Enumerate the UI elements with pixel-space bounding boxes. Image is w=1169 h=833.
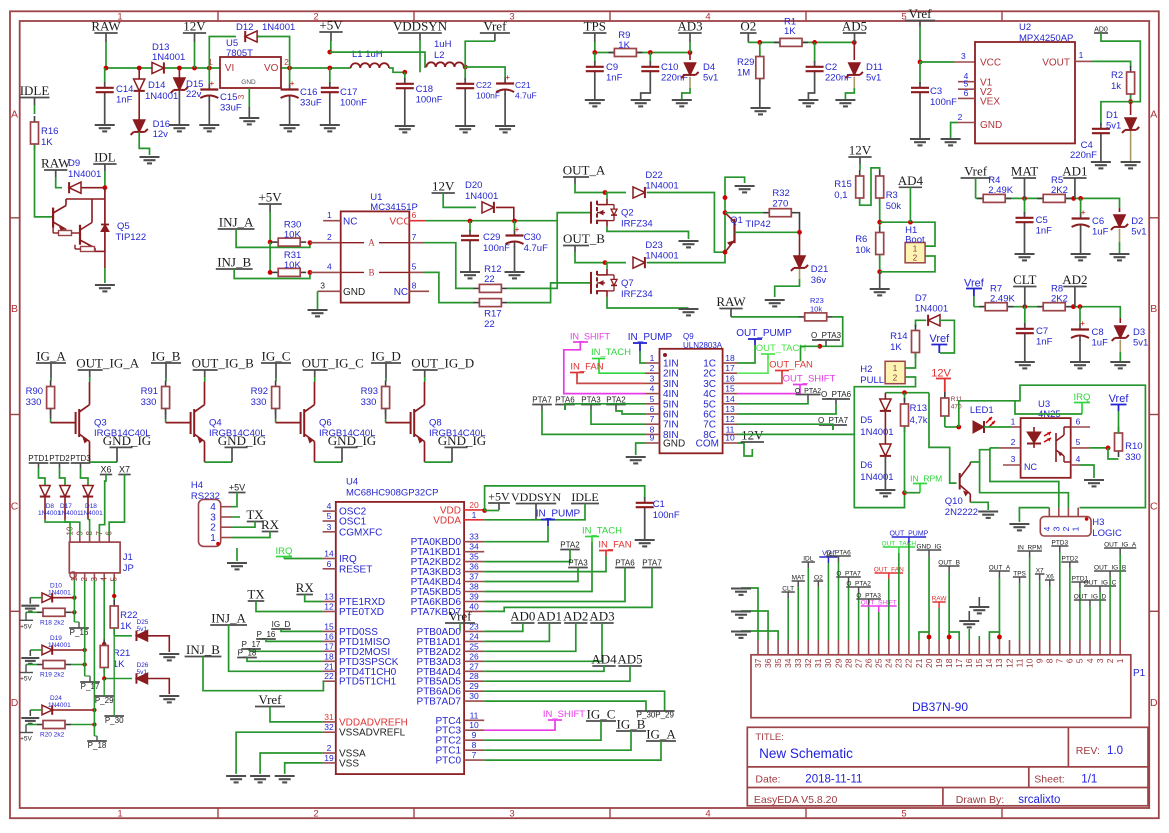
svg-text:2: 2: [313, 11, 318, 22]
svg-text:Vref: Vref: [908, 6, 932, 21]
svg-text:C18: C18: [416, 84, 433, 95]
svg-text:VDDA: VDDA: [433, 515, 461, 526]
svg-text:NC: NC: [394, 287, 408, 298]
svg-text:4: 4: [705, 808, 710, 819]
svg-text:D25: D25: [137, 619, 149, 626]
svg-text:LED1: LED1: [970, 405, 994, 416]
svg-text:R10: R10: [1125, 441, 1142, 452]
svg-text:26: 26: [469, 651, 479, 661]
svg-text:1uH: 1uH: [434, 39, 452, 50]
svg-text:31: 31: [813, 658, 823, 668]
svg-text:PTA7: PTA7: [532, 396, 552, 405]
svg-text:AD1: AD1: [537, 609, 562, 624]
svg-text:PTD1: PTD1: [28, 454, 49, 463]
svg-text:1uF: 1uF: [1092, 227, 1109, 238]
svg-text:OUT_SHIFT: OUT_SHIFT: [783, 374, 836, 385]
svg-text:2: 2: [327, 743, 332, 753]
svg-text:VCC: VCC: [390, 217, 411, 228]
svg-text:D: D: [1150, 697, 1158, 709]
svg-text:R19 2k2: R19 2k2: [40, 672, 65, 679]
svg-text:1N4001: 1N4001: [645, 181, 678, 192]
svg-text:P_18: P_18: [238, 649, 257, 658]
svg-text:33uF: 33uF: [300, 98, 322, 109]
svg-text:7: 7: [1055, 658, 1065, 663]
svg-text:RX: RX: [261, 517, 280, 532]
svg-text:IN_TACH: IN_TACH: [582, 526, 622, 537]
svg-text:26: 26: [863, 658, 873, 668]
svg-text:Sheet:: Sheet:: [1034, 774, 1064, 786]
svg-text:Q9: Q9: [683, 332, 694, 341]
svg-text:1N4001: 1N4001: [262, 22, 295, 33]
svg-text:U4: U4: [346, 477, 358, 488]
svg-text:31: 31: [324, 712, 334, 722]
svg-text:2: 2: [1061, 526, 1071, 531]
svg-text:IN_RPM: IN_RPM: [910, 474, 942, 484]
svg-text:RESET: RESET: [339, 564, 372, 575]
svg-text:TIP42: TIP42: [745, 219, 770, 230]
svg-text:+: +: [209, 78, 214, 88]
svg-text:C17: C17: [340, 87, 357, 98]
svg-text:IG_C: IG_C: [262, 349, 291, 364]
svg-text:AD5: AD5: [617, 652, 642, 667]
svg-text:D19: D19: [50, 635, 62, 642]
svg-text:C3: C3: [930, 86, 942, 97]
svg-text:D3: D3: [1133, 327, 1145, 338]
svg-text:+5V: +5V: [20, 623, 32, 630]
svg-text:4: 4: [1085, 658, 1095, 663]
svg-text:AD2: AD2: [563, 609, 588, 624]
svg-text:5: 5: [327, 511, 332, 521]
svg-text:C22: C22: [476, 80, 492, 90]
svg-text:12v: 12v: [153, 129, 169, 140]
svg-text:AD4: AD4: [591, 652, 617, 667]
svg-text:1N4001: 1N4001: [145, 91, 178, 102]
svg-text:2.49K: 2.49K: [990, 294, 1015, 305]
svg-text:RAW: RAW: [91, 19, 121, 34]
svg-text:New Schematic: New Schematic: [759, 746, 853, 761]
svg-text:VI: VI: [225, 63, 234, 74]
svg-text:2: 2: [313, 808, 318, 819]
svg-text:Drawn By:: Drawn By:: [956, 794, 1004, 806]
svg-text:OUT_IG_C: OUT_IG_C: [302, 356, 364, 371]
svg-text:10: 10: [725, 433, 735, 443]
svg-text:0,1: 0,1: [834, 190, 847, 201]
svg-text:1K: 1K: [890, 342, 902, 353]
svg-text:5: 5: [1075, 658, 1085, 663]
svg-text:PTA3: PTA3: [568, 559, 588, 568]
svg-text:3: 3: [509, 808, 514, 819]
svg-text:ULN2803A: ULN2803A: [683, 341, 723, 350]
svg-text:2018-11-11: 2018-11-11: [805, 774, 862, 786]
svg-text:Q8: Q8: [429, 418, 442, 429]
svg-text:IN_SHIFT: IN_SHIFT: [543, 709, 585, 720]
svg-text:C7: C7: [1036, 326, 1048, 337]
svg-text:OUT_IG_B: OUT_IG_B: [192, 356, 254, 371]
svg-text:IG_B: IG_B: [152, 349, 181, 364]
svg-text:13: 13: [725, 404, 735, 414]
svg-text:21: 21: [324, 661, 334, 671]
svg-text:IG_D: IG_D: [272, 620, 291, 629]
svg-text:5v1: 5v1: [866, 73, 881, 84]
svg-text:11: 11: [470, 710, 479, 720]
svg-text:OSC1: OSC1: [339, 517, 367, 528]
svg-text:O2: O2: [740, 19, 756, 34]
svg-text:C15: C15: [220, 92, 237, 103]
svg-text:5v1: 5v1: [1133, 338, 1148, 349]
svg-text:R16: R16: [41, 126, 58, 137]
svg-text:12: 12: [1004, 658, 1014, 668]
svg-text:Q5: Q5: [117, 221, 130, 232]
svg-text:16: 16: [324, 631, 334, 641]
svg-text:IN_FAN: IN_FAN: [570, 362, 603, 373]
svg-text:DB37N-90: DB37N-90: [912, 700, 968, 714]
svg-text:2: 2: [913, 254, 918, 263]
svg-text:10K: 10K: [284, 260, 302, 271]
svg-text:2: 2: [1105, 658, 1115, 663]
svg-text:OUT_IG_D: OUT_IG_D: [411, 356, 474, 371]
svg-text:PTA7: PTA7: [642, 559, 662, 568]
svg-text:PTB7AD7: PTB7AD7: [417, 697, 462, 708]
svg-text:1N4001: 1N4001: [68, 169, 101, 180]
svg-text:J1: J1: [123, 552, 133, 563]
svg-text:L2: L2: [434, 50, 445, 61]
svg-text:D18: D18: [85, 503, 97, 510]
svg-text:R13: R13: [910, 403, 927, 414]
svg-text:IDL: IDL: [94, 150, 116, 165]
svg-text:Vref: Vref: [258, 692, 282, 707]
svg-text:Vref: Vref: [964, 164, 988, 179]
svg-text:PTA6: PTA6: [615, 559, 635, 568]
svg-text:VO: VO: [264, 63, 279, 74]
svg-text:D4: D4: [703, 62, 715, 73]
svg-text:R2: R2: [1111, 70, 1123, 81]
svg-text:4.7uF: 4.7uF: [524, 243, 548, 254]
svg-text:C16: C16: [300, 87, 317, 98]
svg-text:1nF: 1nF: [1036, 226, 1053, 237]
svg-text:P_17: P_17: [81, 682, 100, 691]
svg-text:P1: P1: [1133, 668, 1146, 679]
svg-text:+5V: +5V: [488, 490, 510, 504]
svg-text:C9: C9: [606, 62, 618, 73]
svg-text:+5V: +5V: [20, 676, 32, 683]
svg-text:INJ_A: INJ_A: [211, 611, 246, 626]
svg-text:30: 30: [823, 658, 833, 668]
svg-text:9: 9: [472, 730, 477, 740]
svg-text:Vref: Vref: [483, 19, 507, 34]
svg-text:14: 14: [984, 658, 994, 668]
svg-text:VSS: VSS: [339, 758, 359, 769]
svg-text:12V: 12V: [849, 143, 872, 158]
svg-text:Vref: Vref: [929, 333, 950, 345]
svg-text:34: 34: [469, 542, 479, 552]
svg-text:100nF: 100nF: [416, 95, 443, 106]
svg-text:18: 18: [725, 353, 735, 363]
svg-text:B: B: [1150, 303, 1157, 315]
svg-text:+: +: [1080, 318, 1085, 328]
svg-text:12: 12: [324, 602, 334, 612]
svg-text:C5: C5: [1036, 215, 1048, 226]
svg-text:15: 15: [974, 658, 984, 668]
svg-text:1nF: 1nF: [1036, 337, 1053, 348]
svg-text:C1: C1: [653, 499, 665, 510]
svg-text:R32: R32: [772, 188, 789, 199]
svg-text:23: 23: [894, 658, 904, 668]
svg-text:GND_IG: GND_IG: [438, 433, 486, 448]
svg-text:C29: C29: [483, 232, 500, 243]
svg-text:R6: R6: [855, 234, 867, 245]
svg-text:1M: 1M: [737, 68, 750, 79]
svg-text:34: 34: [783, 658, 793, 668]
svg-text:Q1: Q1: [730, 215, 743, 226]
svg-text:17: 17: [324, 641, 334, 651]
svg-text:C: C: [1150, 501, 1158, 513]
svg-text:NC: NC: [343, 217, 357, 228]
svg-text:27: 27: [853, 658, 863, 668]
svg-text:6: 6: [964, 88, 969, 98]
svg-text:330: 330: [26, 397, 42, 408]
svg-text:1N4001: 1N4001: [860, 472, 893, 483]
svg-text:IG_D: IG_D: [371, 349, 401, 364]
svg-text:6: 6: [650, 404, 655, 414]
svg-text:IRQ: IRQ: [276, 546, 293, 557]
svg-text:H4: H4: [191, 480, 203, 491]
svg-text:220nF: 220nF: [661, 73, 688, 84]
svg-text:1: 1: [1079, 50, 1084, 60]
svg-text:D26: D26: [137, 662, 149, 669]
svg-text:36: 36: [469, 562, 479, 572]
svg-text:R93: R93: [361, 386, 378, 397]
svg-text:D24: D24: [50, 695, 62, 702]
svg-text:25: 25: [469, 641, 479, 651]
svg-text:3: 3: [327, 522, 332, 532]
svg-text:7805T: 7805T: [226, 48, 253, 59]
svg-text:12V: 12V: [183, 19, 206, 34]
svg-text:3: 3: [650, 373, 655, 383]
svg-text:5: 5: [412, 262, 417, 272]
svg-text:D11: D11: [866, 62, 883, 73]
svg-text:9: 9: [1034, 658, 1044, 663]
svg-text:R29: R29: [737, 57, 754, 68]
svg-text:Date:: Date:: [755, 774, 780, 786]
svg-text:JP: JP: [123, 563, 134, 574]
svg-text:2: 2: [893, 374, 898, 383]
svg-text:27: 27: [469, 661, 479, 671]
svg-text:14: 14: [725, 394, 735, 404]
svg-text:+: +: [1081, 207, 1086, 217]
svg-text:RAW: RAW: [41, 156, 71, 171]
svg-text:OUT_FAN: OUT_FAN: [769, 360, 813, 371]
svg-text:D21: D21: [811, 264, 828, 275]
svg-text:IRFZ34: IRFZ34: [621, 289, 653, 300]
svg-text:D7: D7: [915, 293, 927, 304]
svg-text:4: 4: [650, 384, 655, 394]
svg-text:C8: C8: [1092, 327, 1104, 338]
svg-text:+5V: +5V: [20, 736, 32, 743]
svg-text:10K: 10K: [284, 230, 302, 241]
svg-text:+5V: +5V: [258, 190, 282, 205]
svg-text:22: 22: [484, 319, 495, 330]
svg-text:3: 3: [961, 51, 966, 61]
svg-text:1uF: 1uF: [1092, 338, 1109, 349]
svg-text:P_16: P_16: [257, 630, 276, 639]
svg-text:MPX4250AP: MPX4250AP: [1019, 33, 1073, 44]
svg-text:8: 8: [412, 281, 417, 291]
svg-text:10k: 10k: [810, 305, 822, 314]
svg-text:C6: C6: [1092, 216, 1104, 227]
svg-text:GND: GND: [663, 439, 685, 450]
svg-text:1: 1: [472, 510, 477, 520]
svg-text:1.0: 1.0: [1107, 745, 1123, 757]
svg-text:3: 3: [509, 11, 514, 22]
svg-text:1N4001: 1N4001: [915, 304, 948, 315]
svg-text:C2: C2: [825, 62, 837, 73]
svg-text:1N4001: 1N4001: [80, 510, 103, 517]
svg-text:+5V: +5V: [319, 18, 343, 33]
svg-text:4.7uF: 4.7uF: [515, 91, 537, 101]
svg-text:R15: R15: [834, 179, 851, 190]
svg-text:+: +: [290, 78, 295, 88]
svg-text:D2: D2: [1131, 216, 1143, 227]
svg-text:VDDSYN: VDDSYN: [393, 19, 448, 34]
svg-text:10k: 10k: [855, 245, 871, 256]
svg-text:LOGIC: LOGIC: [1092, 528, 1122, 539]
svg-text:16: 16: [725, 373, 735, 383]
svg-text:32: 32: [324, 722, 334, 732]
svg-text:7: 7: [472, 750, 477, 760]
svg-text:Vref: Vref: [1109, 393, 1130, 405]
svg-text:AD1: AD1: [1062, 164, 1087, 179]
svg-text:50k: 50k: [886, 201, 902, 212]
svg-text:6: 6: [1076, 417, 1081, 427]
svg-text:6: 6: [412, 210, 417, 220]
svg-text:19: 19: [934, 658, 944, 668]
svg-text:12V: 12V: [432, 179, 455, 194]
svg-text:2K2: 2K2: [1051, 185, 1068, 196]
svg-text:7: 7: [650, 414, 655, 424]
svg-text:B: B: [11, 303, 18, 315]
svg-text:R21: R21: [113, 648, 130, 659]
svg-text:9: 9: [650, 433, 655, 443]
svg-text:IDLE: IDLE: [571, 490, 598, 504]
svg-text:4,7k: 4,7k: [910, 415, 928, 426]
svg-text:D9: D9: [68, 158, 80, 169]
svg-text:GND: GND: [343, 287, 365, 298]
svg-text:15: 15: [324, 621, 334, 631]
svg-text:H2: H2: [860, 364, 872, 375]
svg-text:GND_IG: GND_IG: [103, 433, 151, 448]
svg-text:3: 3: [1051, 526, 1061, 531]
svg-text:C21: C21: [515, 80, 531, 90]
svg-text:1nF: 1nF: [116, 95, 133, 106]
svg-text:22: 22: [324, 671, 334, 681]
svg-text:+5V: +5V: [229, 483, 245, 493]
svg-text:1: 1: [210, 533, 216, 544]
svg-text:GND: GND: [980, 120, 1002, 131]
svg-text:1K: 1K: [784, 26, 796, 37]
svg-text:GND: GND: [241, 79, 256, 86]
svg-text:24: 24: [884, 658, 894, 668]
svg-text:srcalixto: srcalixto: [1018, 794, 1060, 806]
svg-text:A: A: [11, 109, 18, 121]
svg-text:14: 14: [324, 549, 334, 559]
svg-text:330: 330: [361, 397, 377, 408]
svg-text:330: 330: [141, 397, 157, 408]
svg-text:INJ_A: INJ_A: [219, 215, 254, 230]
svg-text:CLT: CLT: [1013, 272, 1036, 287]
svg-text:C10: C10: [661, 62, 678, 73]
svg-text:C: C: [11, 501, 19, 513]
svg-text:2: 2: [1011, 437, 1016, 447]
svg-text:OUT_A: OUT_A: [563, 163, 606, 178]
svg-text:Q2: Q2: [621, 208, 634, 219]
svg-text:L1 1uH: L1 1uH: [352, 49, 383, 60]
svg-text:470: 470: [951, 404, 962, 411]
svg-text:30: 30: [469, 691, 479, 701]
svg-text:18: 18: [324, 651, 334, 661]
svg-text:D20: D20: [465, 180, 482, 191]
svg-text:TIP122: TIP122: [116, 232, 147, 243]
svg-text:35: 35: [773, 658, 783, 668]
svg-text:RX: RX: [296, 580, 315, 595]
svg-text:IG_B: IG_B: [617, 717, 646, 732]
svg-text:1nF: 1nF: [606, 73, 623, 84]
svg-text:2: 2: [650, 363, 655, 373]
svg-text:VCC: VCC: [980, 58, 1001, 69]
svg-text:10: 10: [1024, 658, 1034, 668]
svg-text:5v1: 5v1: [703, 73, 718, 84]
svg-text:IRFZ34: IRFZ34: [621, 219, 653, 230]
svg-text:Q7: Q7: [621, 278, 634, 289]
svg-text:1K: 1K: [120, 621, 132, 632]
svg-text:20: 20: [469, 500, 479, 510]
svg-text:5: 5: [1076, 437, 1081, 447]
svg-text:1: 1: [1115, 658, 1125, 663]
svg-text:OUT_IG_A: OUT_IG_A: [76, 356, 139, 371]
svg-text:D5: D5: [860, 415, 872, 426]
svg-text:1/1: 1/1: [1081, 774, 1097, 786]
svg-text:U2: U2: [1019, 22, 1031, 33]
svg-text:VOUT: VOUT: [1042, 58, 1070, 69]
svg-text:3: 3: [1011, 454, 1016, 464]
svg-text:PULL: PULL: [860, 375, 884, 386]
svg-text:6: 6: [1065, 658, 1075, 663]
svg-text:13: 13: [994, 658, 1004, 668]
svg-text:Q3: Q3: [94, 418, 107, 429]
svg-text:AD5: AD5: [842, 19, 867, 34]
svg-text:1N4001: 1N4001: [465, 191, 498, 202]
svg-text:1: 1: [913, 245, 918, 254]
svg-text:PTD5T1CH1: PTD5T1CH1: [339, 677, 397, 688]
svg-text:AD3: AD3: [677, 19, 702, 34]
svg-text:R22: R22: [120, 610, 137, 621]
svg-text:29: 29: [469, 681, 479, 691]
svg-text:EasyEDA V5.8.20: EasyEDA V5.8.20: [754, 794, 838, 806]
svg-text:270: 270: [772, 199, 788, 210]
svg-text:R20 2k2: R20 2k2: [40, 732, 65, 739]
svg-text:22: 22: [904, 658, 914, 668]
svg-text:1N4001: 1N4001: [58, 510, 81, 517]
svg-text:IG_A: IG_A: [36, 349, 66, 364]
svg-text:R90: R90: [26, 386, 43, 397]
svg-text:21: 21: [914, 658, 924, 668]
svg-text:1: 1: [893, 364, 898, 373]
svg-text:4: 4: [327, 501, 332, 511]
svg-text:TX: TX: [247, 587, 265, 602]
svg-text:8: 8: [472, 740, 477, 750]
svg-text:IN_PUMP: IN_PUMP: [536, 509, 581, 520]
svg-text:5v1: 5v1: [1131, 227, 1146, 238]
svg-text:PTD2: PTD2: [49, 454, 70, 463]
